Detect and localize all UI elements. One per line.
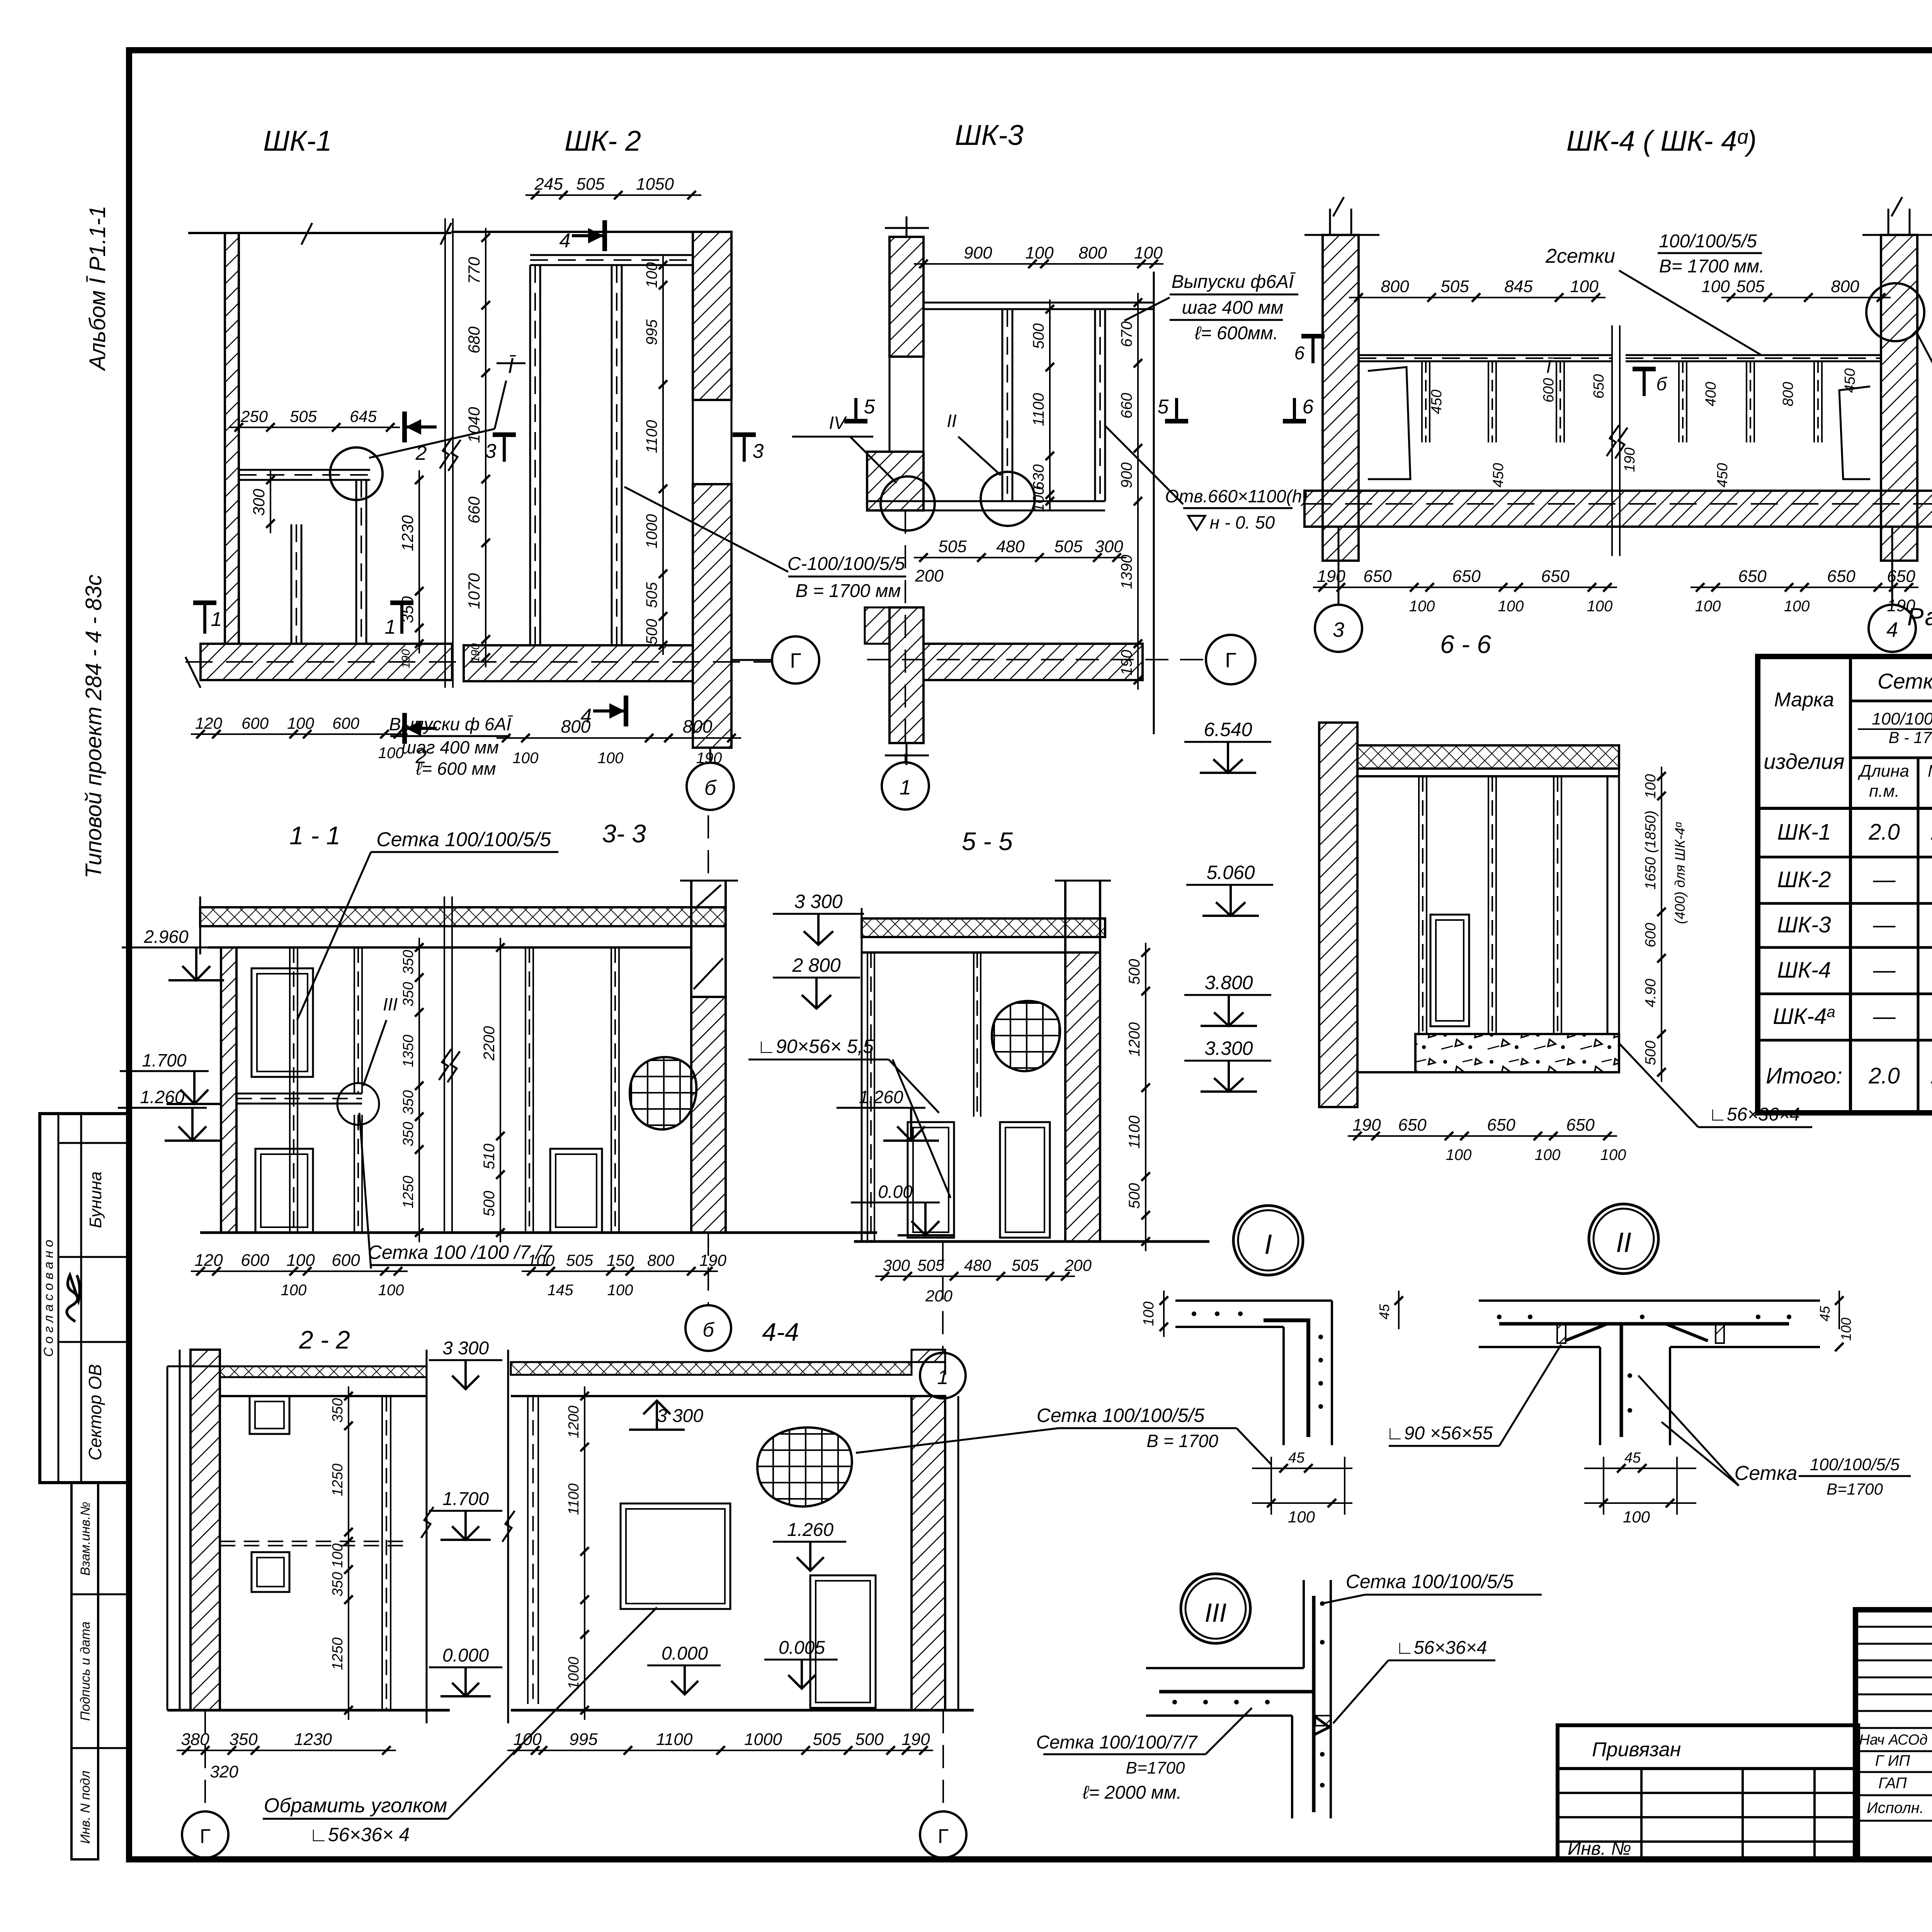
svg-text:Взам.инв.№: Взам.инв.№	[78, 1502, 93, 1575]
svg-text:5: 5	[864, 396, 876, 418]
svg-text:630: 630	[1030, 464, 1047, 490]
svg-text:4: 4	[560, 230, 571, 252]
svg-text:III: III	[1205, 1598, 1227, 1628]
svg-text:изделия: изделия	[1764, 749, 1844, 774]
section 2-2 left wall	[167, 1350, 220, 1710]
plan ШК-2 right wall upper	[693, 232, 731, 400]
svg-text:100: 100	[1446, 1146, 1472, 1163]
svg-text:1200: 1200	[1126, 1022, 1143, 1057]
svg-text:45: 45	[1288, 1450, 1305, 1466]
section mark 2 bottom	[405, 713, 437, 768]
section 5-5 top slab	[862, 908, 1105, 958]
svg-text:1250: 1250	[330, 1464, 346, 1497]
svg-text:ℓ= 600 мм: ℓ= 600 мм	[415, 759, 496, 779]
section 2-2 dim chain	[330, 1386, 353, 1720]
elevation 3.300	[1184, 1037, 1271, 1092]
svg-text:ШК-3: ШК-3	[1777, 912, 1831, 937]
section 1-1 title	[289, 821, 340, 850]
svg-text:6 - 6: 6 - 6	[1440, 630, 1491, 658]
svg-text:100/100/7/ 7: 100/100/7/ 7	[1872, 709, 1932, 728]
svg-text:100: 100	[287, 714, 315, 732]
svg-text:3.800: 3.800	[1204, 972, 1253, 993]
svg-text:505: 505	[1736, 277, 1765, 296]
svg-text:120: 120	[195, 714, 223, 732]
svg-text:800: 800	[683, 716, 713, 736]
elevation 2.960	[122, 927, 224, 980]
svg-text:500: 500	[1643, 1041, 1659, 1065]
section 4-4 left stud	[528, 1396, 538, 1704]
svg-text:100: 100	[598, 750, 624, 767]
svg-text:500: 500	[643, 619, 660, 645]
plan ШК-1 bottom dims	[191, 714, 408, 762]
svg-text:3- 3: 3- 3	[602, 819, 646, 848]
svg-text:600: 600	[241, 1251, 269, 1270]
svg-text:5: 5	[1158, 396, 1169, 418]
svg-text:100: 100	[286, 1251, 315, 1270]
section 1-1 dim chain 350/1350/350/1250	[400, 938, 423, 1242]
svg-text:650: 650	[1827, 567, 1855, 586]
plan ШК-2 middle partition	[612, 265, 622, 645]
ШК-4 bottom dims right	[1690, 567, 1918, 615]
svg-text:1100: 1100	[566, 1483, 582, 1515]
svg-text:ШК-4а: ШК-4а	[1773, 1003, 1835, 1029]
grid circle 1 below ШК-3	[882, 510, 929, 810]
svg-text:100: 100	[607, 1282, 633, 1299]
svg-text:1.260: 1.260	[787, 1520, 833, 1540]
plan ШК-3 title	[955, 119, 1024, 151]
title block grid	[1855, 1610, 1932, 1859]
svg-text:п.м.: п.м.	[1869, 782, 1900, 801]
detail I drawing	[1141, 1291, 1352, 1526]
svg-text:3: 3	[485, 440, 497, 463]
section 5-5 stud	[974, 952, 981, 1117]
section marks б for 6-6	[1294, 336, 1325, 364]
plan ШК-3 right grid line	[1153, 272, 1155, 734]
svg-text:2: 2	[415, 442, 427, 464]
plan ШК-4 opening edge right	[1839, 386, 1870, 479]
svg-text:350: 350	[400, 1122, 417, 1146]
section 1-1 upper window	[252, 968, 313, 1077]
svg-text:ШК-1: ШК-1	[1777, 820, 1831, 845]
svg-text:Нач АСОд: Нач АСОд	[1859, 1732, 1927, 1748]
section 1-1 break line	[439, 896, 460, 1233]
svg-text:Г: Г	[1225, 649, 1236, 672]
svg-text:1: 1	[937, 1366, 949, 1389]
svg-text:100/100/5/5: 100/100/5/5	[1810, 1455, 1900, 1474]
svg-text:100: 100	[1134, 243, 1163, 262]
section 4-4 title	[762, 1318, 799, 1346]
svg-text:С о г л а с о в а н о: С о г л а с о в а н о	[41, 1240, 56, 1357]
svg-text:ШК-1: ШК-1	[263, 125, 332, 157]
section 6-6 concrete base	[1357, 1034, 1619, 1072]
svg-text:800: 800	[561, 716, 591, 736]
svg-text:505: 505	[938, 537, 967, 556]
svg-text:800: 800	[647, 1251, 675, 1269]
svg-text:6: 6	[1303, 396, 1314, 418]
section 2-2/4-4 break lines	[421, 1350, 515, 1723]
svg-text:45: 45	[1376, 1304, 1392, 1320]
svg-text:∟90 ×56×55: ∟90 ×56×55	[1386, 1423, 1493, 1444]
svg-text:190: 190	[699, 1251, 727, 1269]
svg-text:100: 100	[1409, 598, 1435, 615]
section mark 5 left	[844, 396, 876, 421]
svg-text:4: 4	[1886, 618, 1898, 641]
ШК-3 top dims 900 100 800 100	[914, 243, 1163, 268]
svg-text:Отв.660×1100(h): Отв.660×1100(h)	[1165, 486, 1308, 506]
grid circle б top (3-3)	[707, 815, 709, 881]
elevation 0.00 (3-3)	[851, 1182, 953, 1235]
svg-text:650: 650	[1541, 567, 1570, 586]
svg-text:Расход материалов на шумоглуши: Расход материалов на шумоглушительные ка…	[1907, 603, 1932, 631]
svg-text:250: 250	[240, 407, 268, 425]
plan ШК-2 floor slab	[464, 645, 693, 681]
svg-text:н - 0. 50: н - 0. 50	[1210, 512, 1275, 532]
svg-text:1.700: 1.700	[442, 1489, 489, 1509]
svg-text:505: 505	[1440, 277, 1469, 296]
svg-text:—: —	[1873, 957, 1896, 983]
plan ШК-3 left wall top part	[885, 216, 929, 357]
svg-text:1: 1	[211, 608, 222, 631]
svg-text:300: 300	[883, 1256, 910, 1274]
svg-text:300: 300	[250, 488, 268, 516]
elevation 0.000 (4-4)	[647, 1643, 721, 1694]
svg-text:650: 650	[1398, 1116, 1427, 1134]
svg-text:2.0: 2.0	[1868, 820, 1900, 845]
table headers	[1764, 663, 1932, 802]
ШК-3 inner dim chain	[1030, 299, 1054, 512]
svg-text:1000: 1000	[744, 1730, 782, 1749]
elevation 1.260 (3-3)	[837, 1087, 939, 1141]
section 6-6 bottom dims	[1348, 1116, 1626, 1163]
svg-text:320: 320	[210, 1762, 238, 1781]
section 1-1 top slab	[200, 896, 726, 954]
svg-text:1650 (1850): 1650 (1850)	[1643, 811, 1659, 890]
svg-text:350: 350	[398, 596, 417, 623]
ШК-4 dims right half 505 800	[1701, 277, 1891, 302]
section 5-5 left edge	[862, 937, 874, 1242]
svg-text:1100: 1100	[656, 1730, 693, 1749]
svg-text:190: 190	[696, 750, 722, 767]
section 6-6 right edge	[1607, 745, 1619, 1034]
svg-text:6: 6	[1294, 343, 1305, 364]
elevation 1.260 (4-4)	[773, 1520, 846, 1571]
svg-text:Сектор ОВ: Сектор ОВ	[85, 1364, 105, 1460]
section 2-2 dashed partition	[220, 1541, 404, 1546]
note Выпуски ф6АI (ШК-4)	[1917, 332, 1932, 452]
plan ШК-4 hangers left	[1422, 361, 1430, 442]
svg-text:В=1700: В=1700	[1126, 1759, 1185, 1777]
elevation 1.700 (between)	[429, 1489, 502, 1540]
plan ШК-2 left partition	[530, 265, 540, 645]
svg-text:600: 600	[332, 1251, 360, 1270]
svg-text:Длина: Длина	[1857, 762, 1909, 781]
svg-text:Выпуски ф6АĪ: Выпуски ф6АĪ	[1172, 272, 1296, 292]
section 2-2 top slab	[167, 1366, 427, 1396]
label angle 56x36x4 (detail III)	[1333, 1638, 1495, 1723]
svg-text:Г: Г	[790, 649, 801, 672]
detail circle IV on ШК-3	[792, 413, 935, 531]
svg-text:100: 100	[1643, 774, 1659, 798]
note Выпуски ф6АI (ШК-3)	[1124, 272, 1298, 344]
svg-text:100: 100	[1784, 598, 1810, 615]
label Сетка 100/100/5/5 (top)	[297, 828, 558, 1020]
svg-text:350: 350	[330, 1572, 346, 1596]
svg-text:1.260: 1.260	[859, 1087, 903, 1107]
svg-text:Инв. N подл: Инв. N подл	[78, 1770, 93, 1844]
svg-text:350: 350	[400, 982, 417, 1006]
svg-text:Марка: Марка	[1774, 689, 1834, 711]
svg-text:190: 190	[1352, 1116, 1381, 1134]
section 6-6 door	[1430, 915, 1469, 1026]
svg-text:4-4: 4-4	[762, 1318, 799, 1346]
svg-text:100: 100	[1838, 1318, 1854, 1341]
plan ШК-4 mesh line right half	[1626, 355, 1881, 361]
plan ШК-4 left wall	[1304, 197, 1379, 561]
svg-text:0.005: 0.005	[779, 1638, 825, 1658]
svg-text:1100: 1100	[643, 420, 660, 453]
grid line В with circle	[1304, 480, 1932, 527]
svg-text:845: 845	[1504, 277, 1533, 296]
svg-text:1000: 1000	[566, 1657, 582, 1690]
plan ШК-4 right wall	[1862, 197, 1932, 561]
section mark 5 right	[1158, 396, 1188, 421]
svg-text:ШК-4: ШК-4	[1777, 957, 1831, 983]
elevation 0.000 (between)	[429, 1645, 502, 1696]
svg-text:100: 100	[378, 745, 404, 762]
svg-text:800: 800	[1078, 243, 1107, 262]
svg-text:—: —	[1873, 912, 1896, 937]
attachment stamp (Привязан)	[1558, 1725, 1858, 1859]
svg-text:ℓ= 2000 мм.: ℓ= 2000 мм.	[1082, 1782, 1182, 1803]
section mark 3 right	[733, 435, 764, 463]
svg-text:б: б	[704, 776, 717, 799]
svg-text:100: 100	[1288, 1508, 1315, 1526]
svg-text:21.4: 21.4	[1931, 820, 1932, 845]
plan ШК-2 right wall lower	[693, 400, 731, 748]
svg-text:300: 300	[1095, 537, 1123, 556]
svg-text:350: 350	[330, 1398, 346, 1422]
svg-text:200: 200	[925, 1287, 953, 1305]
svg-text:Сетка 100/100/5/5: Сетка 100/100/5/5	[376, 828, 551, 851]
svg-text:Выпуски ф 6АĪ: Выпуски ф 6АĪ	[389, 714, 513, 734]
svg-text:(400) для ШК-4ᵅ: (400) для ШК-4ᵅ	[1672, 822, 1688, 924]
svg-text:Сетка 100/100/5/5: Сетка 100/100/5/5	[1037, 1405, 1205, 1426]
svg-text:В=1700: В=1700	[1827, 1480, 1883, 1498]
svg-text:500: 500	[1030, 323, 1047, 349]
svg-text:1000: 1000	[643, 514, 660, 549]
svg-text:500: 500	[1126, 959, 1143, 985]
svg-text:670: 670	[1118, 321, 1135, 347]
section 2-2 ground	[167, 1709, 450, 1712]
svg-text:500: 500	[1126, 1183, 1143, 1209]
note Выпуски ф6АI шаг 400мм	[389, 714, 513, 779]
svg-text:0.000: 0.000	[442, 1645, 489, 1666]
svg-text:505: 505	[1012, 1256, 1039, 1274]
svg-text:1250: 1250	[400, 1176, 417, 1209]
svg-text:—: —	[1873, 867, 1896, 892]
svg-text:В = 1700 мм: В = 1700 мм	[796, 581, 901, 601]
svg-text:Итого:: Итого:	[1766, 1063, 1842, 1088]
svg-text:100: 100	[513, 1730, 542, 1749]
svg-text:100: 100	[1701, 277, 1730, 296]
section 3-3 bottom dims	[522, 1251, 727, 1299]
dim 250 505 645	[229, 407, 400, 432]
svg-text:Г: Г	[938, 1825, 949, 1848]
svg-text:45: 45	[1817, 1306, 1833, 1321]
svg-text:100: 100	[513, 750, 539, 767]
section 5-5 ground	[854, 1240, 1209, 1243]
ШК-3 lower slab	[923, 644, 1143, 680]
plan ШК-1 title	[263, 125, 332, 157]
detail circle IV on right wall	[1866, 262, 1932, 341]
svg-text:450: 450	[1842, 368, 1858, 393]
svg-text:450: 450	[1490, 463, 1507, 487]
label Сетка 100/100/7/7	[359, 1113, 553, 1269]
section 5-5 right wall	[1055, 881, 1111, 1242]
svg-text:800: 800	[1780, 382, 1796, 406]
svg-text:45: 45	[1624, 1450, 1641, 1466]
ШК-4 small vertical dims	[1429, 368, 1858, 487]
svg-text:100: 100	[527, 1251, 555, 1269]
svg-text:1250: 1250	[330, 1638, 346, 1670]
svg-text:900: 900	[964, 243, 992, 262]
svg-text:1.700: 1.700	[142, 1050, 187, 1070]
plan ШК-3 bottom wall	[867, 501, 1105, 510]
section mark 6 right	[1283, 396, 1314, 421]
section 5-5 mesh blob	[929, 938, 1124, 1133]
label C-100/100/5/5 B=1700mm	[624, 487, 906, 601]
section 4-4 ground	[511, 1709, 974, 1712]
svg-text:∟56×36× 4: ∟56×36× 4	[309, 1824, 410, 1845]
svg-text:Сетка 100/100/7/7: Сетка 100/100/7/7	[1036, 1732, 1198, 1753]
svg-text:шаг 400 мм: шаг 400 мм	[401, 737, 499, 757]
elevation 1.260	[118, 1087, 220, 1141]
svg-text:770: 770	[465, 257, 483, 284]
svg-text:505: 505	[643, 582, 660, 608]
plan ШК-4 floor slab	[1304, 491, 1932, 527]
svg-text:I: I	[1264, 1229, 1272, 1260]
svg-text:100: 100	[1025, 243, 1054, 262]
svg-text:645: 645	[350, 407, 377, 425]
svg-text:Исполн.: Исполн.	[1867, 1799, 1924, 1816]
label Сетка 100/100/5/5 (detail II)	[1638, 1376, 1911, 1498]
svg-text:б: б	[1656, 374, 1668, 395]
svg-text:2 800: 2 800	[792, 954, 840, 976]
plan ШК-4 mesh line left half	[1359, 355, 1612, 361]
svg-text:650: 650	[1452, 567, 1481, 586]
svg-text:1 - 1: 1 - 1	[289, 821, 340, 850]
svg-text:100: 100	[281, 1282, 307, 1299]
elevation 1.700	[120, 1050, 222, 1104]
svg-text:995: 995	[569, 1730, 598, 1749]
svg-text:3 300: 3 300	[794, 891, 842, 912]
plan ШК-2 top wall line	[451, 231, 692, 233]
svg-text:1230: 1230	[398, 515, 417, 551]
detail III drawing	[1146, 1580, 1331, 1818]
section mark 3 left	[485, 435, 516, 463]
plan ШК-1 floor slab	[185, 644, 452, 688]
plan ШК-4 (ШК-4а) title	[1566, 125, 1757, 157]
detail II circle	[1589, 1204, 1658, 1274]
svg-text:505: 505	[566, 1251, 594, 1269]
svg-text:Бунина: Бунина	[86, 1171, 105, 1228]
section 1-1 studs	[290, 947, 362, 1233]
svg-text:650: 650	[1566, 1116, 1595, 1134]
svg-text:III: III	[383, 994, 398, 1014]
svg-text:900: 900	[1118, 463, 1135, 488]
svg-text:2 - 2: 2 - 2	[299, 1325, 350, 1354]
materials table grid	[1758, 656, 1932, 1113]
detail I circle	[1233, 1206, 1303, 1275]
section 2-2 title	[299, 1325, 350, 1354]
svg-text:1.260: 1.260	[140, 1087, 185, 1107]
elevation 5.060	[1186, 862, 1273, 916]
plan ШК-1 interior partition vertical	[356, 480, 366, 644]
svg-text:Альбом Ī Р1.1-1: Альбом Ī Р1.1-1	[85, 206, 110, 371]
section 2-2 bottom dims	[177, 1730, 396, 1781]
plan ШК-4 opening edge left	[1368, 367, 1410, 479]
ШК-2 inner dim chain	[643, 255, 667, 655]
table data rows	[1766, 820, 1932, 1088]
section 1-1 lower window	[255, 1149, 313, 1233]
note Отв.660x1100(h)	[1104, 425, 1308, 532]
svg-text:190: 190	[400, 649, 412, 668]
section 5-5 dim chain	[1126, 943, 1150, 1251]
svg-text:995: 995	[643, 319, 660, 345]
svg-text:II: II	[947, 411, 957, 431]
svg-text:Сетки ГОСТ 8478-66: Сетки ГОСТ 8478-66	[1878, 669, 1932, 693]
svg-text:∟56×36×4: ∟56×36×4	[1396, 1638, 1487, 1658]
label angle 90x56x5.5 (3-3)	[748, 1036, 951, 1198]
detail II drawing	[1376, 1291, 1854, 1526]
label 2сетки 100/100/5/5	[1545, 231, 1764, 355]
plan ШК-1 stud partition	[291, 524, 301, 644]
section 4-4 mesh blob	[692, 1353, 919, 1580]
svg-text:100: 100	[1030, 486, 1047, 512]
plan ШК-2 top partition	[530, 255, 693, 265]
elevation 0.005 (4-4)	[764, 1638, 838, 1689]
svg-text:350: 350	[400, 1090, 417, 1114]
svg-text:505: 505	[576, 175, 605, 194]
svg-text:100: 100	[1600, 1146, 1626, 1163]
svg-text:190: 190	[1622, 447, 1638, 472]
section mark 1 left	[193, 603, 222, 634]
section 4-4 right wall	[912, 1350, 958, 1710]
svg-text:400: 400	[1703, 382, 1719, 406]
grid circle 1 (5-5)	[920, 1242, 966, 1398]
section 2-2 stud	[382, 1396, 391, 1710]
section 3-3 title	[602, 819, 646, 848]
section mark 4 top	[560, 220, 605, 252]
ШК-4 bottom dims left	[1313, 567, 1617, 615]
section 6-6 studs	[1419, 776, 1561, 1034]
svg-text:Привязан: Привязан	[1592, 1738, 1681, 1761]
margin text: Типовой проект 284-4-83с	[81, 575, 106, 878]
svg-text:Сетка: Сетка	[1735, 1462, 1798, 1485]
svg-text:ГАП: ГАП	[1878, 1775, 1907, 1792]
svg-text:0.000: 0.000	[662, 1643, 708, 1664]
plan ШК-2 title	[565, 125, 641, 157]
elevation 6.540	[1184, 719, 1271, 773]
svg-text:500: 500	[481, 1191, 498, 1217]
label angle 90x56x55 (detail II)	[1386, 1345, 1561, 1446]
section 4-4 door	[810, 1575, 876, 1708]
svg-text:680: 680	[465, 326, 483, 354]
svg-text:Масса: Масса	[1928, 762, 1932, 781]
elevation 3300 (between)	[429, 1338, 502, 1389]
svg-text:В= 1700 мм.: В= 1700 мм.	[1659, 256, 1765, 277]
svg-text:5 - 5: 5 - 5	[962, 827, 1013, 855]
